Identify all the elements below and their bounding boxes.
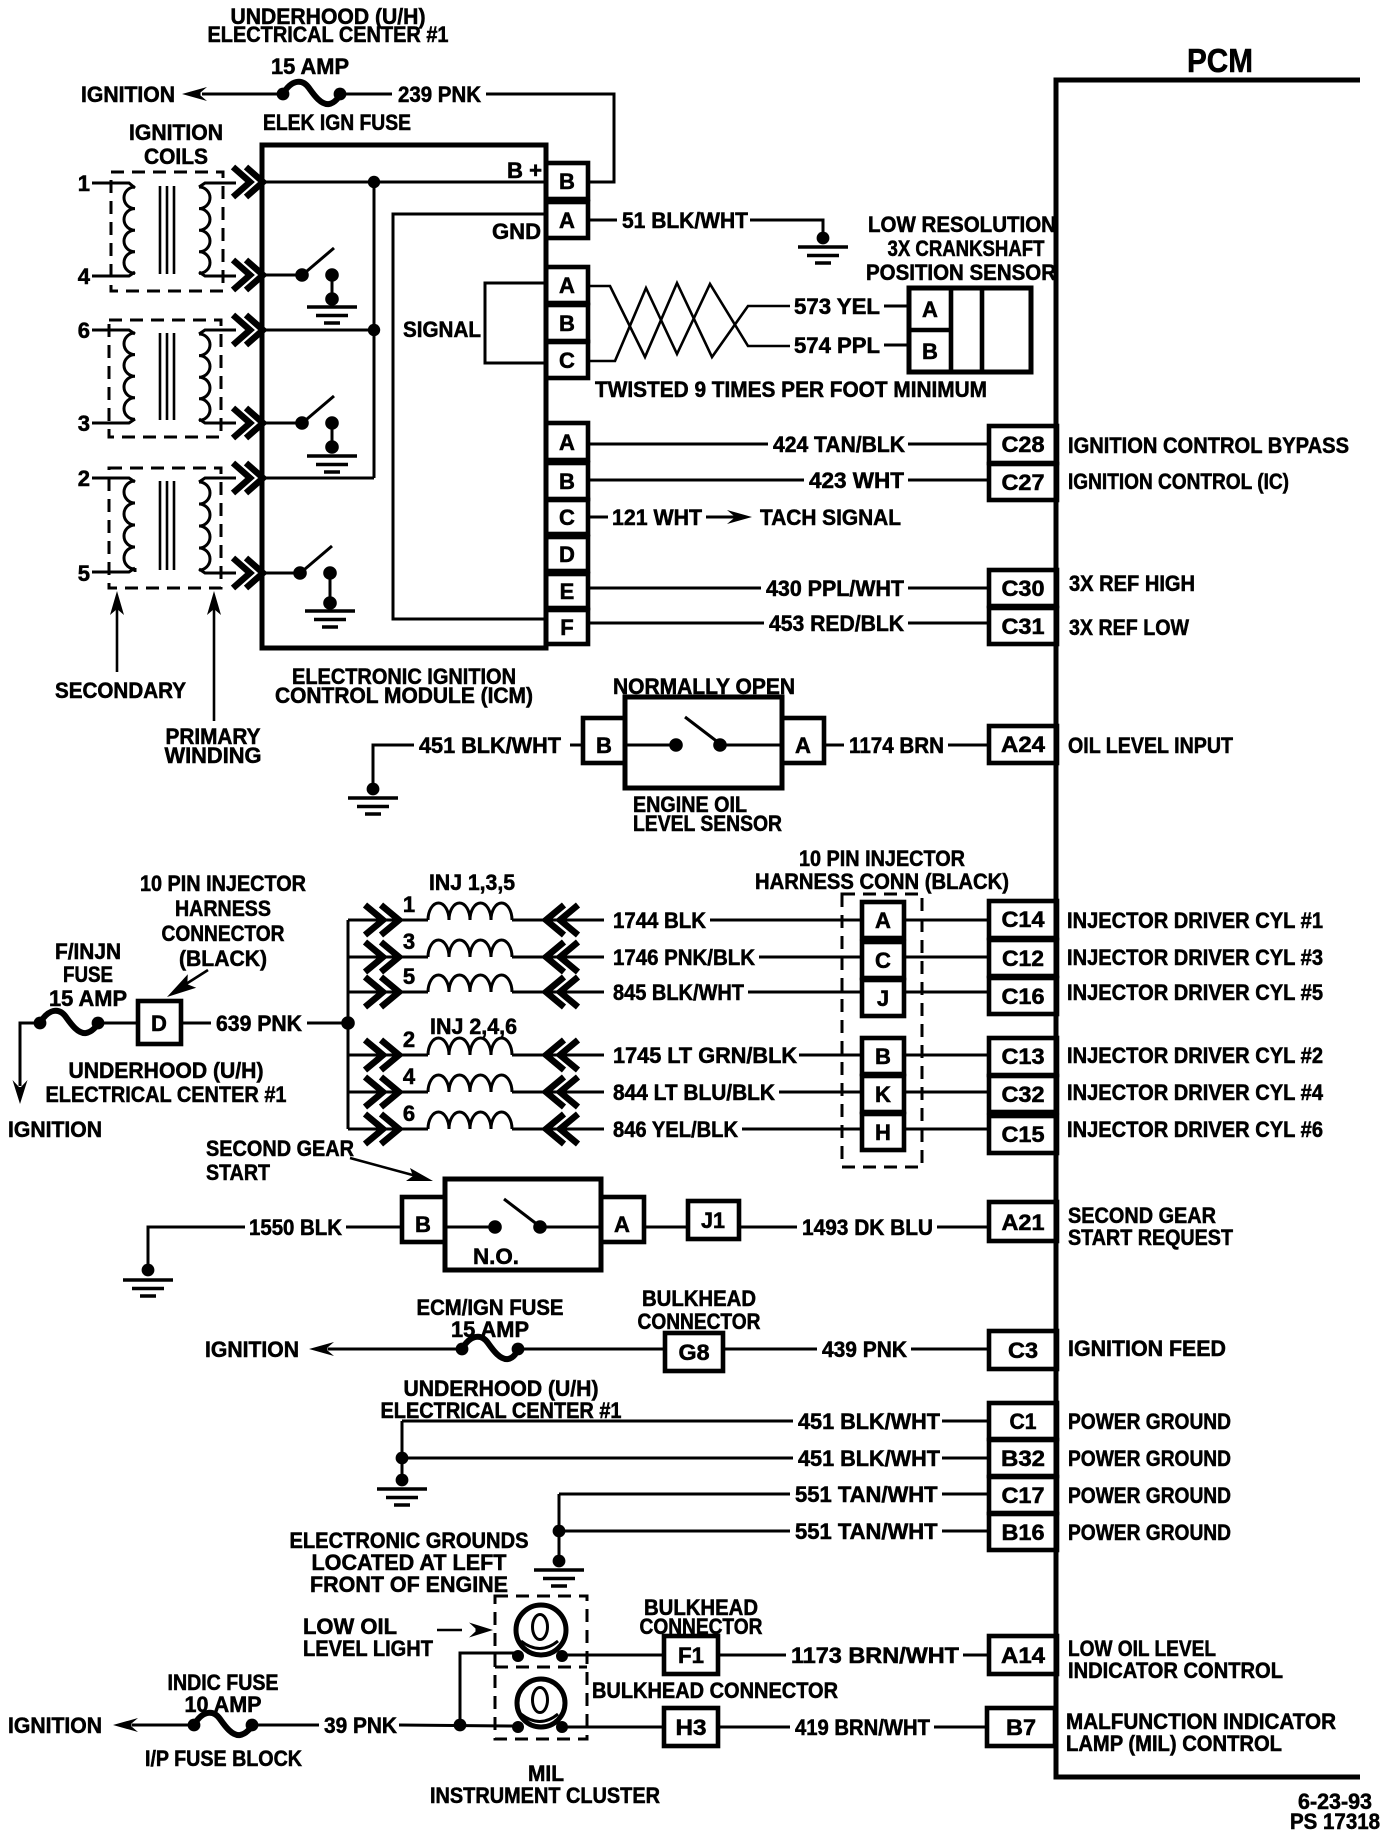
svg-text:IGNITION FEED: IGNITION FEED — [1068, 1336, 1226, 1361]
svg-text:A21: A21 — [1002, 1210, 1045, 1235]
svg-text:SECONDARY: SECONDARY — [55, 678, 186, 703]
node 639 PNK junction — [341, 1016, 355, 1030]
pin C16 — [989, 978, 1057, 1014]
wire 239 PNK to PCM pin B of ICM — [344, 94, 614, 182]
svg-text:A: A — [559, 273, 575, 298]
svg-text:C31: C31 — [1002, 614, 1045, 639]
svg-text:INDICATOR CONTROL: INDICATOR CONTROL — [1068, 1658, 1283, 1683]
pin A signal — [546, 267, 588, 303]
fuse ECM/IGN — [456, 1337, 525, 1359]
pin B oil sensor — [583, 718, 625, 763]
node 451 ground dot — [396, 1474, 409, 1487]
svg-text:639 PNK: 639 PNK — [216, 1011, 302, 1036]
wire injector row 3 left — [348, 956, 428, 959]
svg-text:CONNECTOR: CONNECTOR — [638, 1309, 761, 1334]
inductor injector coil 6 — [428, 1112, 512, 1129]
svg-text:430 PPL/WHT: 430 PPL/WHT — [766, 576, 905, 601]
svg-text:J1: J1 — [701, 1208, 725, 1233]
pin A24 — [989, 726, 1057, 763]
svg-text:3X REF HIGH: 3X REF HIGH — [1069, 571, 1195, 596]
svg-text:5: 5 — [78, 561, 90, 586]
wire MIL lamp to H3 — [566, 1726, 664, 1729]
wire 430 PPL/WHT — [590, 587, 989, 590]
ground 551 engine — [534, 1570, 584, 1586]
svg-text:C: C — [559, 505, 575, 530]
svg-text:5: 5 — [403, 964, 415, 989]
pin F out — [546, 610, 588, 644]
chevron injector 2 harness — [365, 1040, 399, 1070]
node cyl6 junction — [368, 324, 380, 336]
wire ignition to fuse — [202, 93, 283, 96]
wire 451 BLK/WHT to B32 — [402, 1457, 989, 1460]
svg-text:B16: B16 — [1002, 1520, 1045, 1545]
chevron injector 4 return — [546, 1077, 578, 1107]
svg-text:10 AMP: 10 AMP — [185, 1692, 262, 1717]
svg-text:IGNITION: IGNITION — [129, 120, 223, 145]
svg-text:PCM: PCM — [1187, 42, 1253, 79]
pin A14 — [989, 1636, 1057, 1674]
wire injector row 1 left — [348, 919, 428, 922]
wire injector row 4 left — [348, 1091, 428, 1094]
svg-text:IGNITION CONTROL (IC): IGNITION CONTROL (IC) — [1068, 469, 1289, 494]
svg-text:845 BLK/WHT: 845 BLK/WHT — [613, 980, 744, 1005]
wire pin J to C16 — [904, 991, 989, 994]
svg-text:3X CRANKSHAFT: 3X CRANKSHAFT — [888, 236, 1045, 261]
svg-text:39 PNK: 39 PNK — [324, 1713, 397, 1738]
wire injector row 2 left — [348, 1054, 428, 1057]
pin A GND of ICM — [546, 202, 588, 238]
inductor injector coil 3 — [428, 940, 512, 957]
wire injector row 6 right — [512, 1128, 604, 1131]
wire 1173 BRN/WHT — [718, 1654, 989, 1657]
svg-text:POSITION SENSOR: POSITION SENSOR — [866, 260, 1056, 285]
arrow tach signal — [706, 510, 752, 524]
chevron connector cyl1 — [233, 167, 263, 197]
svg-text:HARNESS CONN (BLACK): HARNESS CONN (BLACK) — [755, 869, 1009, 894]
wire pin H to C15 — [904, 1128, 989, 1131]
label INDIC FUSE 10 AMP — [168, 1670, 279, 1717]
svg-text:A: A — [875, 908, 891, 933]
arrow to primary winding — [207, 591, 221, 721]
svg-text:LAMP (MIL) CONTROL: LAMP (MIL) CONTROL — [1066, 1731, 1282, 1756]
svg-text:INJECTOR DRIVER CYL #5: INJECTOR DRIVER CYL #5 — [1067, 980, 1323, 1005]
pin B16 — [989, 1514, 1057, 1550]
node 551 junction — [553, 1525, 566, 1538]
svg-text:51 BLK/WHT: 51 BLK/WHT — [622, 208, 749, 233]
wire 424 TAN/BLK — [590, 443, 989, 446]
wire 39 PNK — [256, 1725, 514, 1726]
svg-text:844 LT BLU/BLK: 844 LT BLU/BLK — [613, 1080, 775, 1105]
node 451 junction — [396, 1452, 409, 1465]
pin C27 — [989, 464, 1057, 500]
label F/INJN FUSE 15 AMP — [49, 939, 127, 1011]
arrowhead ignition left — [182, 87, 207, 101]
svg-text:POWER GROUND: POWER GROUND — [1068, 1483, 1231, 1508]
svg-text:GND: GND — [492, 219, 541, 244]
wire fuse to G8 — [522, 1348, 665, 1351]
ignition coil T2 (cyl 6/3) — [92, 320, 236, 437]
wire 551 TAN/WHT to B16 — [559, 1530, 989, 1533]
pin C32 — [989, 1076, 1057, 1112]
svg-text:C1: C1 — [1010, 1409, 1037, 1434]
svg-text:574 PPL: 574 PPL — [794, 333, 880, 358]
svg-text:B7: B7 — [1006, 1715, 1036, 1740]
ground oil sensor — [348, 798, 398, 814]
wire injector row 3 right — [512, 956, 604, 959]
wire injector row 1 right — [512, 919, 604, 922]
arrow harness connector to D — [167, 970, 208, 997]
wire 844 LT BLU/BLK to harness pin — [779, 1091, 862, 1094]
svg-text:SIGNAL: SIGNAL — [403, 317, 481, 342]
label UNDERHOOD (U/H) ELECTRICAL CENTER #1 — [208, 4, 449, 47]
svg-text:INJ 1,3,5: INJ 1,3,5 — [429, 870, 515, 895]
label LOW RESOLUTION 3X CRANKSHAFT POSITION SENSOR — [866, 212, 1056, 285]
svg-text:K: K — [875, 1082, 891, 1107]
svg-text:451 BLK/WHT: 451 BLK/WHT — [798, 1446, 941, 1471]
svg-text:C28: C28 — [1002, 432, 1045, 457]
svg-text:INJECTOR DRIVER CYL #4: INJECTOR DRIVER CYL #4 — [1067, 1080, 1324, 1105]
fuse ELEK IGN FUSE F1 — [277, 82, 347, 104]
ignition coil T3 (cyl 2/5) — [92, 468, 236, 588]
wire pin C to C12 — [904, 956, 989, 959]
svg-text:H3: H3 — [676, 1715, 707, 1740]
svg-text:B: B — [559, 469, 575, 494]
wire 51 BLK/WHT from pin A — [590, 220, 823, 233]
svg-text:F1: F1 — [678, 1643, 704, 1668]
svg-text:6: 6 — [78, 318, 90, 343]
svg-text:IGNITION CONTROL BYPASS: IGNITION CONTROL BYPASS — [1068, 433, 1349, 458]
svg-text:START: START — [206, 1160, 270, 1185]
svg-text:1744 BLK: 1744 BLK — [613, 908, 706, 933]
svg-text:A: A — [795, 733, 811, 758]
svg-text:C17: C17 — [1002, 1483, 1045, 1508]
svg-text:15 AMP: 15 AMP — [271, 54, 349, 79]
wire cyl6 to rail — [262, 329, 374, 332]
svg-text:POWER GROUND: POWER GROUND — [1068, 1520, 1231, 1545]
wire injector row 5 left — [348, 991, 428, 994]
pin A harness — [862, 902, 904, 938]
wire 423 WHT — [590, 479, 989, 482]
svg-text:10 PIN INJECTOR: 10 PIN INJECTOR — [799, 846, 965, 871]
wire 1174 BRN — [824, 744, 989, 747]
arrow to secondary winding — [110, 591, 124, 672]
second gear start switch — [445, 1179, 601, 1270]
chevron injector 6 return — [546, 1114, 578, 1144]
svg-text:PS 17318: PS 17318 — [1290, 1809, 1380, 1832]
svg-text:INJECTOR DRIVER CYL #1: INJECTOR DRIVER CYL #1 — [1067, 908, 1323, 933]
svg-text:UNDERHOOD (U/H): UNDERHOOD (U/H) — [69, 1058, 264, 1083]
lamp low oil level light — [512, 1605, 568, 1662]
svg-text:C: C — [875, 948, 891, 973]
svg-text:1550 BLK: 1550 BLK — [249, 1215, 342, 1240]
svg-text:INSTRUMENT CLUSTER: INSTRUMENT CLUSTER — [430, 1783, 660, 1808]
svg-text:C16: C16 — [1002, 984, 1045, 1009]
chevron connector cyl3 — [233, 408, 263, 438]
pin A oil sensor — [782, 718, 824, 763]
svg-text:846 YEL/BLK: 846 YEL/BLK — [613, 1117, 738, 1142]
label BULKHEAD CONNECTOR (G8) — [638, 1286, 761, 1334]
svg-text:3X REF LOW: 3X REF LOW — [1069, 615, 1189, 640]
inductor injector coil 1 — [428, 903, 512, 920]
svg-text:1493 DK BLU: 1493 DK BLU — [802, 1215, 933, 1240]
PCM connector outline — [1056, 80, 1360, 1777]
fuse F/INJN — [34, 1011, 105, 1033]
svg-text:F: F — [560, 615, 573, 640]
label UNDERHOOD (U/H) ELECTRICAL CENTER #1 (injector) — [46, 1058, 287, 1107]
arrow second gear to switch — [350, 1158, 433, 1181]
svg-text:TACH SIGNAL: TACH SIGNAL — [760, 505, 901, 530]
pin A out — [546, 423, 588, 460]
svg-text:INJECTOR DRIVER CYL #2: INJECTOR DRIVER CYL #2 — [1067, 1043, 1323, 1068]
chevron connector cyl6 — [233, 315, 263, 345]
svg-text:1: 1 — [403, 892, 415, 917]
pin B of ICM — [546, 163, 588, 199]
switch coil4 driver — [262, 248, 339, 306]
engine oil level sensor switch — [625, 697, 782, 788]
wire 451 BLK/WHT to oil sensor — [373, 745, 583, 783]
wire 419 BRN/WHT — [718, 1726, 987, 1729]
wire 1493 DK BLU — [739, 1226, 989, 1229]
arrow low oil light — [437, 1623, 493, 1638]
chevron injector 3 harness — [365, 942, 399, 972]
label SECOND GEAR START — [206, 1136, 354, 1185]
pin K harness — [862, 1076, 904, 1112]
svg-text:I/P FUSE BLOCK: I/P FUSE BLOCK — [145, 1746, 302, 1771]
pin C14 — [989, 901, 1057, 938]
wire internal signal bracket — [485, 283, 546, 363]
svg-text:H: H — [875, 1120, 891, 1145]
ground 451 engine — [377, 1489, 427, 1505]
pin B harness — [862, 1038, 904, 1074]
wire 573 YEL to sensor pin A — [884, 305, 909, 308]
label MIL INSTRUMENT CLUSTER — [430, 1761, 660, 1808]
svg-text:ELECTRICAL CENTER #1: ELECTRICAL CENTER #1 — [46, 1082, 287, 1107]
svg-text:ELEK IGN FUSE: ELEK IGN FUSE — [263, 110, 411, 135]
svg-text:3: 3 — [78, 411, 90, 436]
svg-text:B: B — [922, 339, 938, 364]
svg-text:3: 3 — [403, 929, 415, 954]
svg-text:A: A — [922, 297, 938, 322]
svg-text:B: B — [559, 311, 575, 336]
pin C out — [546, 500, 588, 534]
node 551 ground dot — [553, 1555, 566, 1568]
arrowhead ignition indic — [113, 1718, 138, 1732]
svg-text:ELECTRICAL CENTER #1: ELECTRICAL CENTER #1 — [208, 22, 449, 47]
pin J harness — [862, 980, 904, 1016]
label PRIMARY WINDING — [165, 724, 262, 768]
wire fuse to ignition arrow — [20, 1023, 36, 1086]
wire 845 BLK/WHT to harness pin — [748, 991, 862, 994]
switch coil5 driver — [262, 546, 337, 610]
svg-text:D: D — [151, 1011, 167, 1036]
svg-text:551 TAN/WHT: 551 TAN/WHT — [795, 1519, 938, 1544]
wire 574 PPL to sensor pin B — [884, 344, 909, 347]
chevron injector 2 return — [546, 1040, 578, 1070]
wire 453 RED/BLK — [590, 622, 989, 625]
svg-text:B: B — [415, 1212, 431, 1237]
inductor injector coil 2 — [428, 1038, 512, 1055]
svg-text:BULKHEAD: BULKHEAD — [642, 1286, 756, 1311]
svg-text:A: A — [614, 1212, 630, 1237]
svg-text:A: A — [559, 430, 575, 455]
wire 121 WHT stub — [590, 516, 608, 519]
pin C3 — [989, 1331, 1057, 1369]
lamp MIL — [512, 1679, 568, 1733]
svg-text:1: 1 — [78, 171, 90, 196]
svg-text:SECOND GEAR: SECOND GEAR — [206, 1136, 354, 1161]
svg-text:(BLACK): (BLACK) — [179, 946, 267, 971]
chevron injector 4 harness — [365, 1077, 399, 1107]
label UNDERHOOD (U/H) ELECTRICAL CENTER #1 (ecm) — [381, 1376, 622, 1423]
svg-text:C12: C12 — [1002, 946, 1044, 971]
svg-text:C30: C30 — [1002, 576, 1045, 601]
svg-text:15 AMP: 15 AMP — [49, 986, 127, 1011]
wire A to J1 — [644, 1226, 688, 1229]
svg-text:573 YEL: 573 YEL — [794, 294, 880, 319]
wire ignition to fuse ecm — [328, 1348, 462, 1351]
svg-text:C13: C13 — [1002, 1044, 1045, 1069]
svg-text:IGNITION: IGNITION — [8, 1713, 102, 1738]
svg-text:121 WHT: 121 WHT — [612, 505, 703, 530]
svg-text:IGNITION: IGNITION — [8, 1117, 102, 1142]
wire 1744 BLK to harness pin — [710, 919, 862, 922]
ground 51 BLK/WHT — [798, 247, 848, 263]
wire lamp to F1 — [566, 1654, 664, 1657]
wire ground bus 451 — [401, 1421, 404, 1474]
svg-text:LEVEL SENSOR: LEVEL SENSOR — [633, 811, 782, 836]
svg-text:15 AMP: 15 AMP — [451, 1317, 529, 1342]
svg-text:LEVEL LIGHT: LEVEL LIGHT — [303, 1636, 434, 1661]
wire B+ rail — [262, 181, 546, 184]
wire 846 YEL/BLK to harness pin — [742, 1128, 862, 1131]
svg-text:HARNESS: HARNESS — [175, 896, 271, 921]
ground coil4 — [307, 307, 357, 323]
svg-text:439 PNK: 439 PNK — [822, 1337, 907, 1362]
svg-text:C3: C3 — [1008, 1338, 1038, 1363]
pin B7 — [987, 1708, 1055, 1746]
pin D out — [546, 537, 588, 571]
svg-text:10 PIN INJECTOR: 10 PIN INJECTOR — [140, 871, 306, 896]
wire 551 TAN/WHT to C17 — [559, 1493, 989, 1496]
svg-text:B: B — [559, 169, 575, 194]
ground coil3 — [307, 456, 357, 472]
svg-text:B: B — [596, 733, 612, 758]
svg-text:A14: A14 — [1001, 1643, 1046, 1668]
pin A second gear — [601, 1197, 644, 1242]
svg-text:2: 2 — [78, 466, 90, 491]
wire injector row 4 right — [512, 1091, 604, 1094]
svg-text:A24: A24 — [1001, 732, 1046, 757]
svg-text:CONTROL MODULE (ICM): CONTROL MODULE (ICM) — [275, 683, 533, 708]
label ELECTRONIC GROUNDS LOCATED AT LEFT FRONT OF ENGINE — [290, 1528, 529, 1597]
pin B out — [546, 463, 588, 499]
pin C28 — [989, 426, 1057, 463]
svg-text:OIL LEVEL INPUT: OIL LEVEL INPUT — [1068, 733, 1233, 758]
arrowhead ignition down — [13, 1080, 28, 1104]
inductor injector coil 4 — [428, 1075, 512, 1092]
pin B signal — [546, 305, 588, 341]
pin C1 — [989, 1403, 1057, 1439]
wire D to 639 PNK — [181, 1022, 348, 1025]
svg-text:INJ 2,4,6: INJ 2,4,6 — [430, 1014, 517, 1039]
svg-text:419 BRN/WHT: 419 BRN/WHT — [795, 1715, 931, 1740]
svg-text:1746 PNK/BLK: 1746 PNK/BLK — [613, 945, 755, 970]
svg-text:J: J — [877, 986, 889, 1011]
pin C signal — [546, 342, 588, 378]
wire injector feed bus — [347, 920, 350, 1129]
ground 1550 BLK — [123, 1280, 173, 1296]
svg-text:IGNITION: IGNITION — [205, 1337, 299, 1362]
chevron injector 1 return — [546, 905, 578, 935]
svg-text:4: 4 — [78, 264, 91, 289]
svg-text:C32: C32 — [1002, 1082, 1045, 1107]
label ENGINE OIL LEVEL SENSOR — [633, 792, 782, 836]
svg-text:C: C — [559, 348, 575, 373]
svg-text:G8: G8 — [679, 1340, 710, 1365]
node ground junction 51 — [817, 232, 830, 245]
wire 1746 PNK/BLK to harness pin — [759, 956, 862, 959]
svg-text:424 TAN/BLK: 424 TAN/BLK — [773, 432, 905, 457]
wire injector row 5 right — [512, 991, 604, 994]
wire twisted pair lead A — [590, 283, 790, 357]
pin A21 — [989, 1202, 1057, 1241]
wire twisted pair lead C — [590, 284, 790, 361]
instrument cluster divider — [495, 1666, 587, 1669]
chevron connector cyl5 — [233, 558, 263, 588]
chevron injector 6 harness — [365, 1114, 399, 1144]
label ECM/IGN FUSE 15 AMP — [417, 1295, 564, 1342]
chevron injector 5 return — [546, 977, 578, 1007]
wire injector row 2 right — [512, 1054, 604, 1057]
label 10 PIN INJECTOR HARNESS CONNECTOR (BLACK) — [140, 871, 306, 971]
label IGNITION COILS — [129, 120, 223, 169]
wire 1550 BLK — [148, 1227, 402, 1264]
svg-text:CONNECTOR: CONNECTOR — [162, 921, 285, 946]
svg-text:POWER GROUND: POWER GROUND — [1068, 1446, 1231, 1471]
node 39 PNK junction — [454, 1719, 467, 1732]
svg-text:1174 BRN: 1174 BRN — [849, 733, 944, 758]
svg-text:1745 LT GRN/BLK: 1745 LT GRN/BLK — [613, 1043, 797, 1068]
label MALFUNCTION INDICATOR LAMP (MIL) CONTROL — [1066, 1709, 1336, 1756]
svg-text:INJECTOR DRIVER CYL #6: INJECTOR DRIVER CYL #6 — [1067, 1117, 1323, 1142]
pin C13 — [989, 1038, 1057, 1075]
svg-text:N.O.: N.O. — [473, 1244, 519, 1269]
svg-text:COILS: COILS — [144, 144, 208, 169]
svg-text:4: 4 — [403, 1064, 416, 1089]
pin C31 — [989, 608, 1057, 644]
chevron injector 1 harness — [365, 905, 399, 935]
label LOW OIL LEVEL LIGHT — [303, 1614, 434, 1661]
wire ignition to indic fuse — [132, 1724, 194, 1727]
wire ground bus 551 — [558, 1494, 561, 1555]
wire internal B+ vertical — [373, 182, 376, 478]
wire pin K to C32 — [904, 1091, 989, 1094]
crankshaft position sensor connector — [909, 288, 1031, 372]
svg-text:6: 6 — [403, 1101, 415, 1126]
wire injector row 6 left — [348, 1128, 428, 1131]
pin C12 — [989, 940, 1057, 976]
injector harness connector dashed outline — [842, 894, 922, 1167]
svg-text:FUSE: FUSE — [63, 962, 113, 987]
pin E out — [546, 574, 588, 608]
svg-text:IGNITION: IGNITION — [81, 82, 175, 107]
connector H3 — [664, 1708, 718, 1746]
svg-text:INJECTOR DRIVER CYL #3: INJECTOR DRIVER CYL #3 — [1067, 945, 1323, 970]
label ELECTRONIC IGNITION CONTROL MODULE (ICM) — [275, 664, 533, 708]
wire pin B to C13 — [904, 1054, 989, 1057]
connector J1 — [688, 1201, 739, 1239]
label BULKHEAD CONNECTOR (F1) — [640, 1595, 763, 1639]
